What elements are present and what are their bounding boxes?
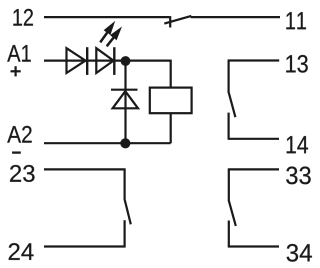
wire A2 row [44,142,171,144]
contact NO 23-24 blade [124,199,130,225]
LED arrow 1 tail [100,33,107,43]
contact NO 33-34 blade [229,200,236,226]
plus sign [11,66,21,76]
terminal label 23 [10,165,34,182]
wire 14 bottom [228,138,279,140]
freewheel diode D3 triangle [113,91,138,108]
wire 12 left segment [44,16,169,18]
LED arrow 2 tail [107,38,114,47]
terminal label A1 [7,45,30,62]
LED arrow 1 head [104,21,116,35]
relay coil K1 [150,88,192,114]
terminal label A2 [7,126,31,143]
contact NO 13-14 blade [228,91,235,117]
contact NC 11-12 fixed tick [169,16,171,27]
freewheel diode D3 cathode bar [111,89,138,91]
terminal label 12 [13,9,33,26]
terminal label 14 [287,136,308,153]
node junction vertical to coil corner [170,60,172,88]
contact NC 11-12 blade [164,16,191,24]
terminal label 13 [286,55,308,73]
wire 34 bottom [228,245,279,247]
terminal label 34 [287,244,312,262]
wire 24 bottom [44,245,126,247]
wire 33 top [228,168,279,170]
wire 13 top [228,59,280,61]
node A1 junction dot [121,56,131,66]
diode D1 cathode bar [86,47,88,75]
terminal label 24 [9,243,34,260]
diode D1 triangle [67,48,86,73]
wire 23 top [44,168,126,170]
contact NO 33-34 bottom vertical [228,221,230,247]
LED arrow 2 head [110,27,122,41]
contact NO 13-14 bottom vertical [228,113,230,139]
wire A1 row [44,59,171,61]
wire 11 right segment [191,16,280,18]
terminal label 33 [286,167,310,185]
LED D2 triangle [96,48,113,73]
contact NO 33-34 top vertical [228,169,230,200]
contact NO 23-24 top vertical [123,169,125,198]
wire coil bottom [170,113,172,143]
node A2 junction dot [120,138,130,148]
wire freewheel branch vertical [124,60,126,143]
minus sign [12,151,21,153]
LED D2 cathode bar [113,47,115,75]
contact NO 23-24 bottom vertical [123,220,125,246]
contact NO 13-14 top vertical [228,61,230,92]
terminal label 11 [286,12,306,29]
